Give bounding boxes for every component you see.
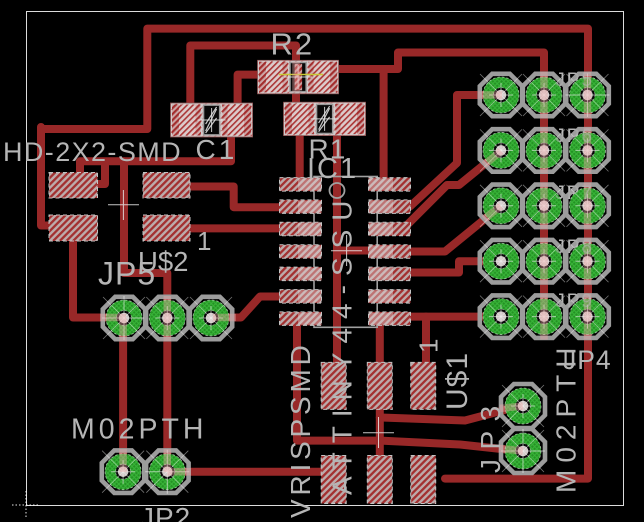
svg-text:1: 1 bbox=[414, 339, 444, 353]
svg-text:C1: C1 bbox=[196, 134, 238, 165]
pad JP4 r5c2 bbox=[523, 295, 565, 338]
svg-text:IC1: IC1 bbox=[307, 153, 358, 185]
svg-text:JP8: JP8 bbox=[555, 237, 594, 258]
pad JP4 r1c3 bbox=[566, 74, 609, 116]
pad JP4 r2c3 bbox=[566, 129, 609, 172]
wire GND top loop: left vertical, top rail, JP4 col3 vertical, bottom rail bbox=[41, 29, 588, 479]
pad U$1.2 bbox=[367, 362, 392, 409]
wire IC1 pin7 down and right to JP3 pin2 bbox=[297, 318, 520, 451]
wire C1 pad2 bottom to U$2 pad1 bbox=[80, 130, 231, 184]
wire JP4 r5c1 to IC1 pin8 bbox=[406, 313, 501, 321]
pad JP3.1 bbox=[501, 384, 545, 428]
pad IC1 pin 5 bbox=[280, 267, 322, 281]
wire JP4 r1c1 to IC1 pin13 bbox=[410, 95, 501, 207]
svg-text:VRISPSMD: VRISPSMD bbox=[285, 341, 316, 518]
svg-text:HD-2X2-SMD: HD-2X2-SMD bbox=[3, 137, 182, 167]
pad U$1.4 bbox=[321, 456, 346, 504]
svg-text:JP7: JP7 bbox=[555, 183, 594, 204]
pad U$2.1 bbox=[49, 173, 98, 199]
pad JP2.2 bbox=[146, 450, 189, 493]
pad IC1 pin 13 bbox=[369, 200, 411, 214]
pad IC1 pin 9 bbox=[369, 290, 411, 304]
svg-text:U$1: U$1 bbox=[441, 352, 474, 410]
wire junction to IC1 pin14 bbox=[380, 69, 388, 186]
svg-text:JP9: JP9 bbox=[555, 291, 594, 312]
svg-text:JP6: JP6 bbox=[555, 126, 594, 147]
header JP3 bbox=[501, 384, 545, 473]
pad IC1 pin 3 bbox=[280, 222, 322, 236]
header JP4 grid 3x5 bbox=[480, 73, 610, 338]
capacitor C1 bbox=[171, 103, 253, 137]
svg-text:M02PTH: M02PTH bbox=[551, 341, 582, 493]
pad JP4 r5c1 bbox=[480, 295, 522, 338]
wire U$2 net down to JP5 pin2, JP2 pin2, U$1 pad4 bbox=[124, 161, 333, 471]
pad JP4 r3c3 bbox=[566, 185, 609, 228]
pad U$1.3 bbox=[411, 362, 436, 409]
pad IC1 pin 14 bbox=[369, 178, 411, 192]
pad JP4 r1c2 bbox=[523, 74, 565, 116]
svg-text:JP3: JP3 bbox=[475, 396, 506, 473]
pin1 marker circle bbox=[330, 183, 345, 198]
pad U$2.2 bbox=[143, 173, 190, 199]
origin cross U$2 bbox=[108, 190, 139, 220]
pad IC1 pin 12 bbox=[369, 222, 411, 236]
wire branch to IC1 pin11 bbox=[337, 247, 374, 255]
pad IC1 pin 8 bbox=[369, 312, 411, 326]
pad U$2.3 bbox=[49, 215, 98, 241]
svg-text:JP5: JP5 bbox=[555, 70, 594, 91]
wire JP5 pin1 to JP2 pin1 bbox=[119, 319, 127, 470]
header JP2 bbox=[102, 450, 190, 494]
pad JP3.2 bbox=[501, 429, 545, 473]
airwire through R2 bbox=[279, 74, 323, 76]
pad JP4 r4c1 bbox=[480, 240, 522, 283]
connector U$2 HD-2X2-SMD pads bbox=[49, 173, 190, 242]
IC1 SOIC14 body outline bbox=[314, 177, 377, 328]
wire JP4 r2c1 to IC1 pin12 bbox=[407, 151, 501, 225]
header JP5 bbox=[102, 296, 232, 340]
pad JP4 r2c1 bbox=[480, 129, 522, 172]
pad JP5.2 bbox=[146, 297, 189, 339]
wire IC1 pin8 area down through U$1 pad2 to pad5 bbox=[376, 322, 384, 458]
pad U$2.4 bbox=[143, 215, 190, 241]
pad JP4 r2c2 bbox=[523, 129, 565, 172]
wire U$2 pad3 to left rail bbox=[41, 127, 58, 226]
pad IC1 pin 2 bbox=[280, 200, 322, 214]
pad JP5.1 bbox=[103, 297, 145, 339]
wire R1 pad2 down through IC1 to U$1 pad1 bbox=[333, 128, 341, 370]
wire branch row5 down to U$1 pad3 bbox=[422, 317, 430, 366]
resistor R1 bbox=[284, 102, 366, 135]
pad U$1.1 bbox=[321, 362, 346, 409]
pad IC1 pin 10 bbox=[369, 267, 411, 281]
resistor R2 bbox=[258, 60, 339, 94]
wire U$1 column to JP3 pin1 bbox=[380, 406, 520, 421]
pad JP4 r5c3 bbox=[566, 295, 609, 338]
wire U$2 pad3 bottom to JP5 pin1 bbox=[73, 236, 122, 318]
origin mark at board corner bbox=[12, 491, 40, 519]
pad U$1.5 bbox=[367, 456, 392, 504]
wire JP4 r4c1 to IC1 pin10 bbox=[406, 261, 501, 272]
pad IC1 pin 4 bbox=[280, 245, 322, 258]
svg-text:JP5: JP5 bbox=[98, 256, 156, 292]
svg-text:R2: R2 bbox=[271, 27, 315, 62]
wire R2 pad2 to JP4 col2 vertical bbox=[339, 53, 544, 318]
svg-text:1: 1 bbox=[197, 226, 211, 256]
pad JP4 r4c3 bbox=[566, 240, 609, 283]
wire JP5 pin3 to IC1 pin6 bbox=[213, 297, 287, 318]
pad JP5.3 bbox=[190, 297, 232, 339]
pad IC1 pin 7 bbox=[280, 312, 322, 326]
svg-text:ATTINY44-SSU: ATTINY44-SSU bbox=[327, 191, 358, 495]
wire R1 pad1 to IC1 pin1 bbox=[296, 128, 304, 186]
pad JP4 r3c2 bbox=[523, 185, 565, 228]
svg-text:M02PTH: M02PTH bbox=[71, 414, 207, 446]
trace glow over pads bbox=[540, 72, 548, 118]
pad U$1.6 bbox=[411, 456, 436, 504]
origin cross IC1 bbox=[331, 235, 362, 266]
wire JP4 r3c1 to IC1 pin11 bbox=[406, 206, 501, 252]
pad JP2.1 bbox=[102, 450, 145, 493]
wire R2 pad1 to C1 pad2 top bbox=[238, 75, 262, 112]
faint node labels over pads bbox=[555, 70, 594, 312]
svg-text:JP2: JP2 bbox=[140, 502, 191, 522]
pad JP4 r4c2 bbox=[523, 240, 565, 283]
origin cross U$1 bbox=[363, 417, 394, 448]
pad IC1 pin 11 bbox=[369, 245, 411, 258]
wire C1 pad1 up to rail into R2/R1 column bbox=[190, 46, 296, 109]
wire U$2 pad2 to IC1 pin2 bbox=[188, 187, 286, 208]
pad JP4 r3c1 bbox=[480, 185, 522, 228]
pad IC1 pin 6 bbox=[280, 290, 322, 304]
wire U$2 pad4 to IC1 pin3 bbox=[188, 224, 286, 232]
pad IC1 pin 1 bbox=[280, 178, 322, 192]
pad JP4 r1c1 bbox=[480, 74, 522, 116]
